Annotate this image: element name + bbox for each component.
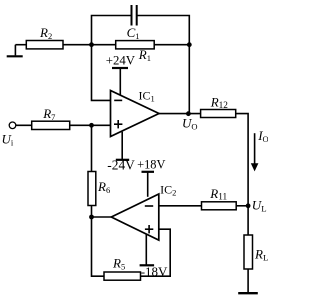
resistor R5 bbox=[104, 272, 141, 280]
capacitor C1 bbox=[132, 5, 137, 26]
wire: R12 to load column bbox=[236, 114, 248, 235]
wire: R1 to right feedback vertical bbox=[154, 44, 189, 46]
power -18V supply bbox=[140, 234, 168, 279]
op-amp IC1 bbox=[111, 91, 160, 137]
wire: R7 to IC1 plus input bbox=[70, 124, 111, 126]
wire: node to IC2 output apex bbox=[92, 216, 112, 218]
wire: R2 to inverting bus junction bbox=[63, 44, 116, 46]
resistor R6 (vertical) bbox=[88, 172, 96, 206]
wire: R6 down to bottom rail bbox=[92, 206, 105, 277]
junction: feedback/R1 bbox=[187, 42, 192, 47]
resistor R2 bbox=[26, 41, 63, 49]
svg-text:-24V: -24V bbox=[107, 158, 135, 173]
ground (left, at R2) bbox=[7, 45, 23, 57]
wire: inverting bus down to IC1 minus input bbox=[92, 45, 111, 101]
IC2 minus symbol bbox=[145, 205, 153, 207]
resistor RL (vertical) bbox=[244, 235, 253, 269]
junction: load node UL bbox=[246, 203, 251, 208]
junction: noninverting node bbox=[89, 123, 94, 128]
IC1 minus symbol bbox=[114, 99, 122, 101]
wire: top feedback loop left segment bbox=[92, 16, 132, 45]
power -24V supply bbox=[107, 132, 135, 173]
power +24V supply bbox=[106, 54, 136, 96]
wire: R11 to load node bbox=[236, 205, 248, 207]
wire: IC1 output to R12 bbox=[159, 113, 201, 115]
current arrow Io bbox=[251, 133, 259, 171]
resistor R11 bbox=[202, 202, 237, 210]
wire: terminal to R7 bbox=[16, 124, 32, 126]
wire: IC2 minus input to R11 bbox=[159, 205, 202, 207]
IC1 plus symbol bbox=[114, 120, 122, 128]
op-amp IC2 (points left) bbox=[111, 194, 159, 240]
resistor R1 bbox=[116, 41, 155, 49]
junction: R2/R1/feedback bus bbox=[89, 42, 94, 47]
wire: ground to R2 bbox=[15, 44, 26, 46]
ground (bottom right) bbox=[238, 292, 258, 294]
IC2 plus symbol bbox=[145, 225, 153, 233]
input terminal Ui bbox=[9, 122, 16, 129]
svg-text:+18V: +18V bbox=[137, 158, 165, 172]
wire: RL to ground bbox=[247, 269, 249, 293]
wire: IC2 plus input loop to bottom rail bbox=[141, 229, 171, 276]
svg-text:+24V: +24V bbox=[106, 54, 136, 68]
resistor R12 bbox=[201, 110, 236, 118]
junction: IC2 output node bbox=[89, 215, 94, 220]
resistor R7 bbox=[32, 121, 70, 129]
wire: top feedback loop right segment bbox=[137, 16, 190, 114]
junction: output node Uo bbox=[186, 111, 191, 116]
wire: noninverting node down to R6 bbox=[91, 125, 93, 171]
power +18V supply bbox=[137, 158, 165, 197]
